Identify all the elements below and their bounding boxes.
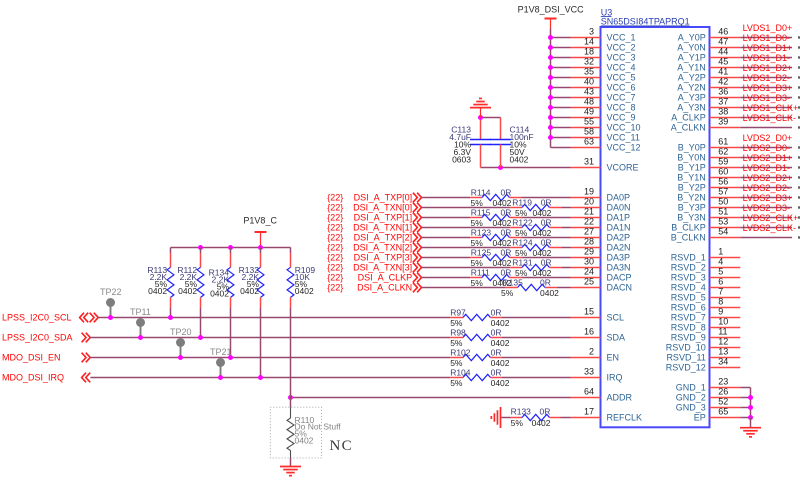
resistor R119 left lead bbox=[510, 207, 522, 209]
svg-text:GND_2: GND_2 bbox=[676, 393, 706, 403]
svg-text:14: 14 bbox=[584, 37, 594, 47]
svg-text:37: 37 bbox=[718, 97, 728, 107]
junction rail R132 bbox=[258, 245, 263, 250]
svg-text:0R: 0R bbox=[541, 197, 552, 207]
resistor R135 zigzag bbox=[518, 284, 546, 290]
wire net LVDS2_D0- bbox=[740, 157, 792, 159]
svg-text:R125: R125 bbox=[471, 247, 492, 257]
wire ADDR down to R110 bbox=[290, 398, 292, 408]
pin 16 SDA stub bbox=[571, 337, 601, 339]
svg-text:0R: 0R bbox=[501, 267, 512, 277]
pin 37 A_Y3N stub bbox=[710, 107, 741, 109]
svg-text:28: 28 bbox=[584, 237, 594, 247]
svg-text:LVDS2_D1+: LVDS2_D1+ bbox=[743, 153, 793, 163]
svg-text:54: 54 bbox=[718, 227, 728, 237]
pin 44 A_Y1P stub bbox=[710, 57, 741, 59]
wire rail to VCC_11 bbox=[551, 137, 571, 139]
resistor R109 bottom lead bbox=[290, 297, 292, 308]
svg-text:40: 40 bbox=[584, 77, 594, 87]
junction VCC_7 rail bbox=[548, 95, 553, 100]
svg-text:TP20: TP20 bbox=[170, 327, 192, 337]
svg-text:IRQ: IRQ bbox=[607, 373, 623, 383]
pin 33 IRQ stub bbox=[571, 377, 601, 379]
off-page chevron DSI_A_TXP[0] bbox=[413, 193, 422, 203]
wire LPSS_I2C0_SCL bbox=[98, 317, 450, 319]
svg-text:45: 45 bbox=[718, 57, 728, 67]
svg-text:R119: R119 bbox=[512, 197, 532, 207]
svg-text:12: 12 bbox=[718, 337, 728, 347]
svg-text:LVDS1_D3+: LVDS1_D3+ bbox=[743, 83, 793, 93]
pin 14 VCC_2 stub bbox=[571, 47, 601, 49]
wire net LVDS1_CLK- bbox=[740, 127, 792, 129]
wire R102 to pin bbox=[501, 357, 570, 359]
wire R111 to pin bbox=[521, 277, 570, 279]
svg-text:RSVD_12: RSVD_12 bbox=[666, 363, 706, 373]
resistor R102 zigzag bbox=[463, 354, 491, 360]
svg-text:TP22: TP22 bbox=[100, 287, 122, 297]
svg-text:VCC_9: VCC_9 bbox=[607, 113, 636, 123]
pin 62 B_Y0N stub bbox=[710, 157, 741, 159]
resistor R113 bottom lead bbox=[170, 297, 172, 308]
svg-text:LVDS1_D1+: LVDS1_D1+ bbox=[743, 43, 793, 53]
wire DSI_A_TXP[2] to resistor R123 bbox=[422, 237, 471, 239]
svg-text:34: 34 bbox=[718, 357, 728, 367]
wire ADDR bbox=[291, 397, 571, 399]
resistor R132 top wire bbox=[260, 248, 262, 254]
svg-text:LVDS2_D2-: LVDS2_D2- bbox=[743, 183, 790, 193]
edge mark LVDS1_D3- bbox=[798, 106, 800, 108]
svg-text:LVDS2_D2+: LVDS2_D2+ bbox=[743, 173, 793, 183]
svg-text:16: 16 bbox=[584, 327, 594, 337]
junction VCC_5 rail bbox=[548, 75, 553, 80]
svg-text:VCC_4: VCC_4 bbox=[607, 63, 636, 73]
svg-text:VCC_7: VCC_7 bbox=[607, 93, 636, 103]
svg-text:DA2P: DA2P bbox=[607, 233, 631, 243]
svg-text:56: 56 bbox=[718, 177, 728, 187]
resistor R104 left lead bbox=[450, 377, 463, 379]
svg-text:58: 58 bbox=[584, 127, 594, 137]
resistor R131 left lead bbox=[510, 267, 522, 269]
svg-text:A_Y0N: A_Y0N bbox=[677, 43, 706, 53]
svg-text:{22}: {22} bbox=[327, 263, 343, 273]
pin 5 RSVD_3 stub bbox=[710, 277, 741, 279]
svg-text:LVDS2_CLK+: LVDS2_CLK+ bbox=[743, 213, 799, 223]
svg-text:R104: R104 bbox=[450, 367, 471, 377]
wire net LVDS2_CLK+ bbox=[740, 227, 792, 229]
svg-text:R122: R122 bbox=[512, 217, 533, 227]
svg-text:LVDS1_D3-: LVDS1_D3- bbox=[743, 93, 790, 103]
pin 63 VCC_12 stub bbox=[571, 147, 601, 149]
edge mark LVDS2_D0+ bbox=[798, 146, 800, 148]
wire net LVDS2_CLK- bbox=[740, 237, 792, 239]
svg-text:0R: 0R bbox=[541, 257, 552, 267]
wire rail to VCC_9 bbox=[551, 117, 571, 119]
port chevron MDO_DSI_EN bbox=[82, 353, 91, 363]
pin 53 B_CLKP stub bbox=[710, 227, 741, 229]
wire rail to VCC_10 bbox=[551, 127, 571, 129]
svg-text:B_Y3P: B_Y3P bbox=[678, 203, 706, 213]
svg-text:21: 21 bbox=[584, 207, 594, 217]
pin 41 A_Y2P stub bbox=[710, 77, 741, 79]
svg-text:29: 29 bbox=[584, 247, 594, 257]
wire P1V8_DSI_VCC rail vertical bbox=[550, 29, 552, 148]
svg-text:VCC_6: VCC_6 bbox=[607, 83, 636, 93]
svg-text:47: 47 bbox=[718, 37, 728, 47]
wire DSI_A_CLKP to resistor R111 bbox=[422, 277, 471, 279]
pin 38 A_CLKP stub bbox=[710, 117, 741, 119]
test point TP22 pad bbox=[106, 298, 115, 307]
svg-text:44: 44 bbox=[718, 47, 728, 57]
svg-text:LVDS1_D0+: LVDS1_D0+ bbox=[743, 23, 793, 33]
svg-text:A_Y3N: A_Y3N bbox=[677, 103, 706, 113]
junction R112 signal bbox=[198, 335, 203, 340]
svg-text:DSI_A_TXP[2]: DSI_A_TXP[2] bbox=[354, 233, 413, 243]
wire net LVDS2_D0+ bbox=[740, 147, 792, 149]
resistor R98 left lead bbox=[450, 337, 463, 339]
pin 50 B_Y3P stub bbox=[710, 207, 741, 209]
svg-text:B_Y0P: B_Y0P bbox=[678, 143, 706, 153]
svg-text:B_Y1P: B_Y1P bbox=[678, 163, 706, 173]
pin 6 RSVD_4 stub bbox=[710, 287, 741, 289]
resistor R132 top lead bbox=[260, 253, 262, 267]
svg-text:59: 59 bbox=[718, 157, 728, 167]
resistor R112 top wire bbox=[200, 248, 202, 254]
svg-text:22: 22 bbox=[584, 217, 594, 227]
svg-text:11: 11 bbox=[718, 327, 727, 337]
wire R104 to pin bbox=[501, 377, 570, 379]
pin 11 RSVD_9 stub bbox=[710, 337, 741, 339]
svg-text:19: 19 bbox=[584, 187, 594, 197]
wire R122 to pin bbox=[561, 227, 570, 229]
pin 49 VCC_9 stub bbox=[571, 117, 601, 119]
junction rail R134 bbox=[228, 245, 233, 250]
pin 10 RSVD_8 stub bbox=[710, 327, 741, 329]
svg-text:LVDS1_D2-: LVDS1_D2- bbox=[743, 73, 790, 83]
svg-text:27: 27 bbox=[584, 227, 594, 237]
wire DSI_A_CLKN to resistor R135 bbox=[422, 287, 506, 289]
wire R132 to signal bbox=[260, 308, 262, 378]
edge mark LVDS2_CLK- bbox=[798, 236, 800, 238]
svg-text:0402: 0402 bbox=[148, 286, 167, 296]
resistor R134 bottom lead bbox=[230, 297, 232, 308]
resistor R110 zigzag bbox=[287, 418, 294, 451]
pin 43 VCC_7 stub bbox=[571, 97, 601, 99]
svg-text:13: 13 bbox=[718, 347, 728, 357]
pin 55 VCC_10 stub bbox=[571, 127, 601, 129]
svg-text:0402: 0402 bbox=[295, 436, 314, 446]
svg-text:VCC_11: VCC_11 bbox=[607, 133, 640, 143]
resistor R113 zigzag bbox=[167, 267, 174, 297]
resistor R111 left lead bbox=[470, 277, 482, 279]
ground symbol above caps (inverted) bbox=[470, 107, 491, 109]
pin 1 RSVD_1 stub bbox=[710, 257, 741, 259]
svg-text:DA3N: DA3N bbox=[607, 263, 631, 273]
svg-text:0R: 0R bbox=[501, 207, 512, 217]
resistor R124 zigzag bbox=[522, 244, 550, 250]
wire DSI_A_TXN[3] to resistor R131 bbox=[422, 267, 511, 269]
wire net LVDS1_D3- bbox=[740, 107, 792, 109]
svg-text:7: 7 bbox=[718, 287, 723, 297]
wire MDO_DSI_EN bbox=[90, 357, 450, 359]
svg-text:0R: 0R bbox=[501, 227, 512, 237]
ground lead above caps bbox=[480, 108, 482, 118]
edge mark LVDS1_D2+ bbox=[798, 76, 800, 78]
svg-text:VCC_8: VCC_8 bbox=[607, 103, 636, 113]
svg-text:DA1N: DA1N bbox=[607, 223, 631, 233]
resistor R98 zigzag bbox=[463, 334, 491, 340]
svg-text:LVDS2_D1-: LVDS2_D1- bbox=[743, 163, 790, 173]
svg-text:SCL: SCL bbox=[607, 313, 625, 323]
edge mark LVDS2_D3+ bbox=[798, 206, 800, 208]
resistor R133 left lead bbox=[511, 417, 523, 419]
resistor R132 zigzag bbox=[257, 267, 264, 297]
edge mark LVDS1_CLK- bbox=[798, 126, 800, 128]
svg-text:A_Y1P: A_Y1P bbox=[678, 53, 706, 63]
svg-text:DSI_A_TXN[0]: DSI_A_TXN[0] bbox=[353, 203, 412, 213]
resistor R110 top lead bbox=[290, 407, 292, 418]
svg-text:0R: 0R bbox=[501, 187, 512, 197]
svg-text:DA1P: DA1P bbox=[607, 213, 631, 223]
svg-text:RSVD_6: RSVD_6 bbox=[671, 303, 706, 313]
junction TP21 bbox=[218, 375, 223, 380]
svg-text:0R: 0R bbox=[541, 237, 552, 247]
capacitor C113 top lead bbox=[480, 118, 482, 140]
svg-text:49: 49 bbox=[584, 107, 594, 117]
wire R125 to pin bbox=[521, 257, 570, 259]
svg-text:DSI_A_TXP[0]: DSI_A_TXP[0] bbox=[354, 193, 413, 203]
off-page chevron DSI_A_TXP[1] bbox=[413, 213, 422, 223]
wire net LVDS1_D1+ bbox=[740, 57, 792, 59]
svg-text:0402: 0402 bbox=[210, 288, 229, 298]
pin 56 B_Y2P stub bbox=[710, 187, 741, 189]
junction VCC_9 rail bbox=[548, 115, 553, 120]
svg-text:24: 24 bbox=[584, 267, 594, 277]
edge mark LVDS1_D0+ bbox=[798, 36, 800, 38]
junction R134 signal bbox=[228, 355, 233, 360]
ground symbol REFCLK (rotated) bbox=[500, 407, 502, 428]
resistor R109 top wire bbox=[290, 248, 292, 254]
edge mark LVDS2_D3- bbox=[798, 216, 800, 218]
svg-text:60: 60 bbox=[718, 167, 728, 177]
svg-text:{22}: {22} bbox=[327, 233, 343, 243]
wire rail to VCC_1 bbox=[551, 37, 571, 39]
wire DSI_A_TXN[0] to resistor R119 bbox=[422, 207, 511, 209]
svg-text:DA0P: DA0P bbox=[607, 193, 631, 203]
svg-text:6: 6 bbox=[718, 277, 723, 287]
resistor R131 right lead bbox=[550, 267, 562, 269]
pin 24 DACP stub bbox=[571, 277, 601, 279]
resistor R134 top wire bbox=[230, 248, 232, 254]
svg-text:LVDS2_D0-: LVDS2_D0- bbox=[743, 143, 790, 153]
pin 32 VCC_4 stub bbox=[571, 67, 601, 69]
capacitor C113 plates bbox=[470, 139, 491, 141]
pin 47 A_Y0N stub bbox=[710, 47, 741, 49]
wire net LVDS2_D2+ bbox=[740, 187, 792, 189]
pin 40 VCC_6 stub bbox=[571, 87, 601, 89]
resistor R115 zigzag bbox=[482, 214, 510, 220]
pin 42 A_Y2N stub bbox=[710, 87, 741, 89]
resistor R110 DNI box bbox=[270, 407, 321, 458]
resistor R98 right lead bbox=[491, 337, 502, 339]
resistor R115 left lead bbox=[470, 217, 482, 219]
off-page chevron DSI_A_TXN[0] bbox=[413, 203, 422, 213]
svg-text:57: 57 bbox=[718, 187, 728, 197]
svg-text:53: 53 bbox=[718, 217, 728, 227]
pin 3 VCC_1 stub bbox=[571, 37, 601, 39]
svg-text:R135: R135 bbox=[503, 277, 524, 287]
junction VCC_8 rail bbox=[548, 105, 553, 110]
svg-text:MDO_DSI_EN: MDO_DSI_EN bbox=[2, 353, 61, 363]
wire R98 to pin bbox=[501, 337, 570, 339]
svg-text:5%: 5% bbox=[511, 418, 524, 428]
wire VCORE bbox=[481, 167, 571, 169]
resistor R112 zigzag bbox=[197, 267, 204, 297]
svg-text:0R: 0R bbox=[491, 367, 502, 377]
svg-text:20: 20 bbox=[584, 197, 594, 207]
edge mark LVDS1_D1- bbox=[798, 66, 800, 68]
svg-text:SN65DSI84TPAPRQ1: SN65DSI84TPAPRQ1 bbox=[601, 17, 690, 27]
wire R131 to pin bbox=[561, 267, 570, 269]
capacitor C114 top lead bbox=[500, 118, 502, 140]
svg-text:VCORE: VCORE bbox=[607, 163, 639, 173]
pin 17 REFCLK stub bbox=[571, 417, 601, 419]
wire net LVDS1_D3+ bbox=[740, 97, 792, 99]
wire rail to VCC_2 bbox=[551, 47, 571, 49]
wire DSI_A_TXN[2] to resistor R124 bbox=[422, 247, 511, 249]
svg-text:R111: R111 bbox=[471, 267, 490, 277]
svg-text:38: 38 bbox=[718, 107, 728, 117]
svg-text:DSI_A_TXP[1]: DSI_A_TXP[1] bbox=[354, 213, 413, 223]
svg-text:DA3P: DA3P bbox=[607, 253, 631, 263]
edge mark LVDS1_D3+ bbox=[798, 96, 800, 98]
svg-text:VCC_1: VCC_1 bbox=[607, 33, 636, 43]
svg-text:LVDS2_CLK-: LVDS2_CLK- bbox=[743, 223, 796, 233]
wire net LVDS2_D1+ bbox=[740, 167, 792, 169]
wire DSI_A_TXP[0] to resistor R114 bbox=[422, 197, 471, 199]
pin 52 GND_3 stub bbox=[710, 407, 741, 409]
svg-text:TP21: TP21 bbox=[210, 347, 232, 357]
svg-text:R123: R123 bbox=[471, 227, 492, 237]
capacitor C113 bottom lead bbox=[480, 145, 482, 168]
resistor R110 bottom lead bbox=[290, 451, 292, 458]
svg-text:DSI_A_TXN[1]: DSI_A_TXN[1] bbox=[353, 223, 412, 233]
pin 13 RSVD_11 stub bbox=[710, 357, 741, 359]
junction VCC_2 rail bbox=[548, 45, 553, 50]
svg-text:LVDS1_D2+: LVDS1_D2+ bbox=[743, 63, 793, 73]
resistor R114 right lead bbox=[510, 197, 522, 199]
resistor R112 top lead bbox=[200, 253, 202, 267]
svg-text:EN: EN bbox=[607, 353, 620, 363]
svg-text:41: 41 bbox=[718, 67, 728, 77]
pin 54 B_CLKN stub bbox=[710, 237, 741, 239]
junction TP11 bbox=[138, 335, 143, 340]
resistor R125 zigzag bbox=[482, 254, 510, 260]
svg-text:33: 33 bbox=[584, 367, 594, 377]
resistor R124 right lead bbox=[550, 247, 562, 249]
svg-text:35: 35 bbox=[584, 67, 594, 77]
svg-text:5%: 5% bbox=[501, 288, 514, 298]
svg-text:B_Y2N: B_Y2N bbox=[677, 193, 706, 203]
svg-text:R124: R124 bbox=[512, 237, 533, 247]
svg-text:42: 42 bbox=[718, 77, 728, 87]
svg-text:ADDR: ADDR bbox=[607, 393, 633, 403]
pin 2 EN stub bbox=[571, 357, 601, 359]
svg-text:RSVD_5: RSVD_5 bbox=[671, 293, 706, 303]
pin 18 VCC_3 stub bbox=[571, 57, 601, 59]
svg-text:RSVD_8: RSVD_8 bbox=[671, 323, 706, 333]
svg-text:DA2N: DA2N bbox=[607, 243, 631, 253]
pin 30 DA3N stub bbox=[571, 267, 601, 269]
ground symbol below R110 bbox=[280, 466, 301, 468]
svg-text:0402: 0402 bbox=[178, 286, 197, 296]
svg-text:VCC_3: VCC_3 bbox=[607, 53, 636, 63]
wire R133 to REFCLK pin bbox=[561, 417, 571, 419]
svg-text:31: 31 bbox=[584, 157, 594, 167]
wire cap tops bbox=[481, 117, 501, 119]
junction R113 signal bbox=[168, 315, 173, 320]
test point TP11 stem bbox=[140, 323, 142, 337]
svg-text:A_Y3P: A_Y3P bbox=[678, 93, 706, 103]
svg-text:0402: 0402 bbox=[510, 155, 529, 165]
svg-text:0R: 0R bbox=[501, 247, 512, 257]
svg-text:LPSS_I2C0_SCL: LPSS_I2C0_SCL bbox=[2, 313, 72, 323]
svg-text:5: 5 bbox=[718, 267, 723, 277]
wire GND_2 to ground bus bbox=[740, 397, 750, 399]
svg-text:R131: R131 bbox=[512, 257, 533, 267]
svg-text:55: 55 bbox=[584, 117, 594, 127]
wire DSI_A_TXN[1] to resistor R122 bbox=[422, 227, 511, 229]
port chevrons LPSS_I2C0_SCL bbox=[80, 313, 89, 323]
wire EP to ground bus bbox=[740, 417, 750, 419]
svg-text:{22}: {22} bbox=[327, 253, 343, 263]
junction GND_2 bbox=[748, 395, 753, 400]
resistor R115 right lead bbox=[510, 217, 522, 219]
svg-text:P1V8_C: P1V8_C bbox=[243, 216, 277, 226]
port chevron MDO_DSI_IRQ bbox=[82, 373, 91, 383]
test point TP21 pad bbox=[216, 358, 225, 367]
svg-text:0R: 0R bbox=[491, 327, 502, 337]
test point TP22 stem bbox=[110, 303, 112, 317]
wire net LVDS1_D0+ bbox=[740, 37, 792, 39]
junction R132 signal bbox=[258, 375, 263, 380]
svg-text:3: 3 bbox=[589, 27, 594, 37]
wire rail to VCC_3 bbox=[551, 57, 571, 59]
svg-text:0402: 0402 bbox=[295, 286, 314, 296]
wire R112 to signal bbox=[200, 308, 202, 338]
pin 25 DACN stub bbox=[571, 287, 601, 289]
svg-text:0402: 0402 bbox=[491, 378, 510, 388]
edge mark LVDS1_D2- bbox=[798, 86, 800, 88]
off-page chevron DSI_A_TXN[2] bbox=[413, 243, 422, 253]
wire rail to VCC_6 bbox=[551, 87, 571, 89]
wire net LVDS1_D2+ bbox=[740, 77, 792, 79]
wire GND_3 to ground bus bbox=[740, 407, 750, 409]
wire LPSS_I2C0_SDA bbox=[90, 337, 450, 339]
pin 21 DA1P stub bbox=[571, 217, 601, 219]
svg-text:36: 36 bbox=[718, 87, 728, 97]
wire R119 to pin bbox=[561, 207, 570, 209]
pin 65 EP stub bbox=[710, 417, 741, 419]
svg-text:REFCLK: REFCLK bbox=[607, 413, 643, 423]
edge mark LVDS1_D1+ bbox=[798, 56, 800, 58]
resistor R134 zigzag bbox=[227, 267, 234, 297]
svg-text:VCC_5: VCC_5 bbox=[607, 73, 636, 83]
wire EP to ground bbox=[750, 418, 752, 428]
resistor R125 left lead bbox=[470, 257, 482, 259]
junction VCC_10 rail bbox=[548, 125, 553, 130]
svg-text:EP: EP bbox=[694, 413, 706, 423]
wire rail to VCC_7 bbox=[551, 97, 571, 99]
